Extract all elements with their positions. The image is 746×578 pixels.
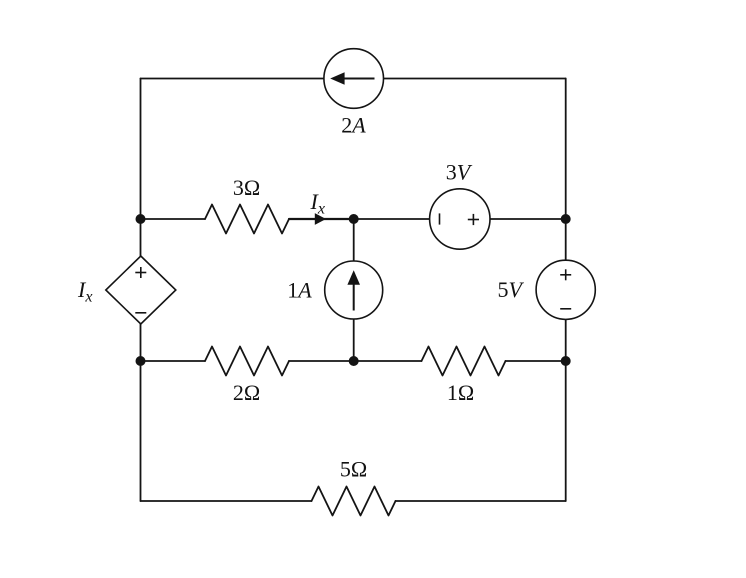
svg-text:1A: 1A — [287, 278, 312, 303]
svg-text:1Ω: 1Ω — [447, 380, 474, 405]
svg-text:Ix: Ix — [310, 189, 325, 218]
current source 2A — [324, 49, 384, 109]
voltage source 3V — [430, 189, 490, 249]
wire lower-mid middle segment — [289, 360, 422, 362]
svg-text:5Ω: 5Ω — [340, 457, 367, 482]
node center-bottom — [349, 356, 359, 366]
current source 1A — [325, 261, 383, 319]
resistor 1ohm — [422, 347, 506, 376]
node bottom-right — [561, 356, 571, 366]
wire with current arrow Ix — [289, 218, 354, 220]
node top-left — [136, 214, 146, 224]
node bottom-left — [136, 356, 146, 366]
svg-text:3V: 3V — [446, 160, 473, 185]
node center-top — [349, 214, 359, 224]
dependent source Ix (diamond) — [106, 256, 176, 324]
wire left rail — [140, 79, 142, 502]
wire bottom right segment — [396, 500, 566, 502]
resistor 5ohm — [312, 487, 396, 516]
wire top rail — [141, 78, 566, 80]
wire center vertical — [353, 219, 355, 361]
resistor R 3ohm — [205, 205, 289, 234]
svg-text:2Ω: 2Ω — [233, 380, 260, 405]
wire bottom left segment — [141, 500, 312, 502]
resistor 2ohm — [205, 347, 289, 376]
wire mid node to right rail — [354, 218, 566, 220]
wire lower-mid left segment — [141, 360, 206, 362]
node top-right — [561, 214, 571, 224]
svg-text:2A: 2A — [341, 113, 366, 138]
svg-text:3Ω: 3Ω — [233, 175, 260, 200]
voltage source 5V — [536, 260, 595, 319]
svg-text:Ix: Ix — [77, 277, 92, 306]
wire lower-mid right segment — [506, 360, 566, 362]
svg-text:5V: 5V — [497, 277, 524, 302]
wire mid-left to 3ohm — [141, 218, 206, 220]
current arrow Ix on wire — [315, 213, 326, 225]
wire right rail — [565, 79, 567, 502]
